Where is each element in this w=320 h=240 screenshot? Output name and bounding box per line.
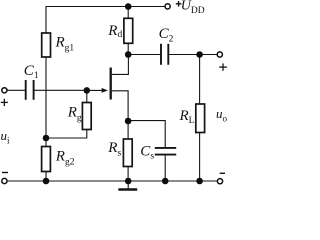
node divider: [43, 135, 50, 142]
wire Rs bottom lead: [127, 167, 129, 182]
ground: [127, 181, 129, 189]
resistor RL: [196, 104, 205, 133]
capacitor C2: [161, 44, 168, 65]
resistor Rg: [82, 103, 91, 130]
label output minus: [220, 172, 225, 174]
label input minus: [2, 172, 8, 174]
wire input top: [7, 89, 26, 91]
wire C1 to gate node: [34, 89, 87, 91]
wire Rd top lead: [127, 7, 129, 19]
wire source node to Cs: [128, 121, 165, 147]
resistor Rd: [124, 18, 133, 43]
transistor Q1 gate bar: [110, 68, 112, 100]
resistor Rg1: [42, 33, 51, 57]
node Rg2 bottom: [43, 178, 50, 185]
capacitor Cs: [155, 148, 176, 155]
node source: [125, 118, 132, 125]
terminal input +: [2, 88, 7, 93]
label output plus: [219, 63, 227, 70]
node Cs bottom: [162, 178, 169, 185]
wire top rail: [46, 6, 165, 8]
wire Rd bottom lead: [127, 43, 129, 54]
terminal +UDD: [165, 4, 170, 9]
resistor Rg top lead: [86, 90, 88, 102]
terminal input -: [2, 178, 7, 183]
node drain: [125, 51, 132, 58]
wire Rg bottom to divider node: [46, 130, 87, 139]
transistor Q1 gate arrow: [102, 88, 108, 93]
node top rail / Rd: [125, 3, 132, 10]
resistor Rs: [123, 139, 132, 167]
node gate: [84, 87, 91, 94]
wire bottom rail: [7, 180, 217, 182]
wire Cs bottom lead: [164, 155, 166, 181]
wire Rg2 bottom lead: [45, 172, 47, 182]
node RL bottom: [196, 178, 203, 185]
terminal output -: [217, 179, 222, 184]
node output: [196, 51, 203, 58]
wire source lead: [112, 91, 128, 121]
wire drain lead: [112, 55, 129, 75]
label +UDD plus sign: [176, 1, 182, 7]
resistor Rg2: [42, 147, 51, 172]
wire gate lead: [87, 89, 107, 91]
wire Rg1 bottom to divider node: [45, 57, 47, 138]
wire RL top lead: [199, 55, 201, 105]
terminal output +: [217, 52, 222, 57]
wire drain node to C2: [128, 54, 161, 56]
node ground: [125, 178, 132, 185]
wire C2 to output terminal: [168, 54, 217, 56]
label input plus: [1, 99, 8, 106]
capacitor C1: [26, 80, 34, 100]
wire Rg2 top lead: [45, 138, 47, 147]
wire source node to Rs: [127, 121, 129, 139]
wire RL bottom lead: [199, 133, 201, 182]
wire Rg1 top lead: [45, 7, 47, 34]
